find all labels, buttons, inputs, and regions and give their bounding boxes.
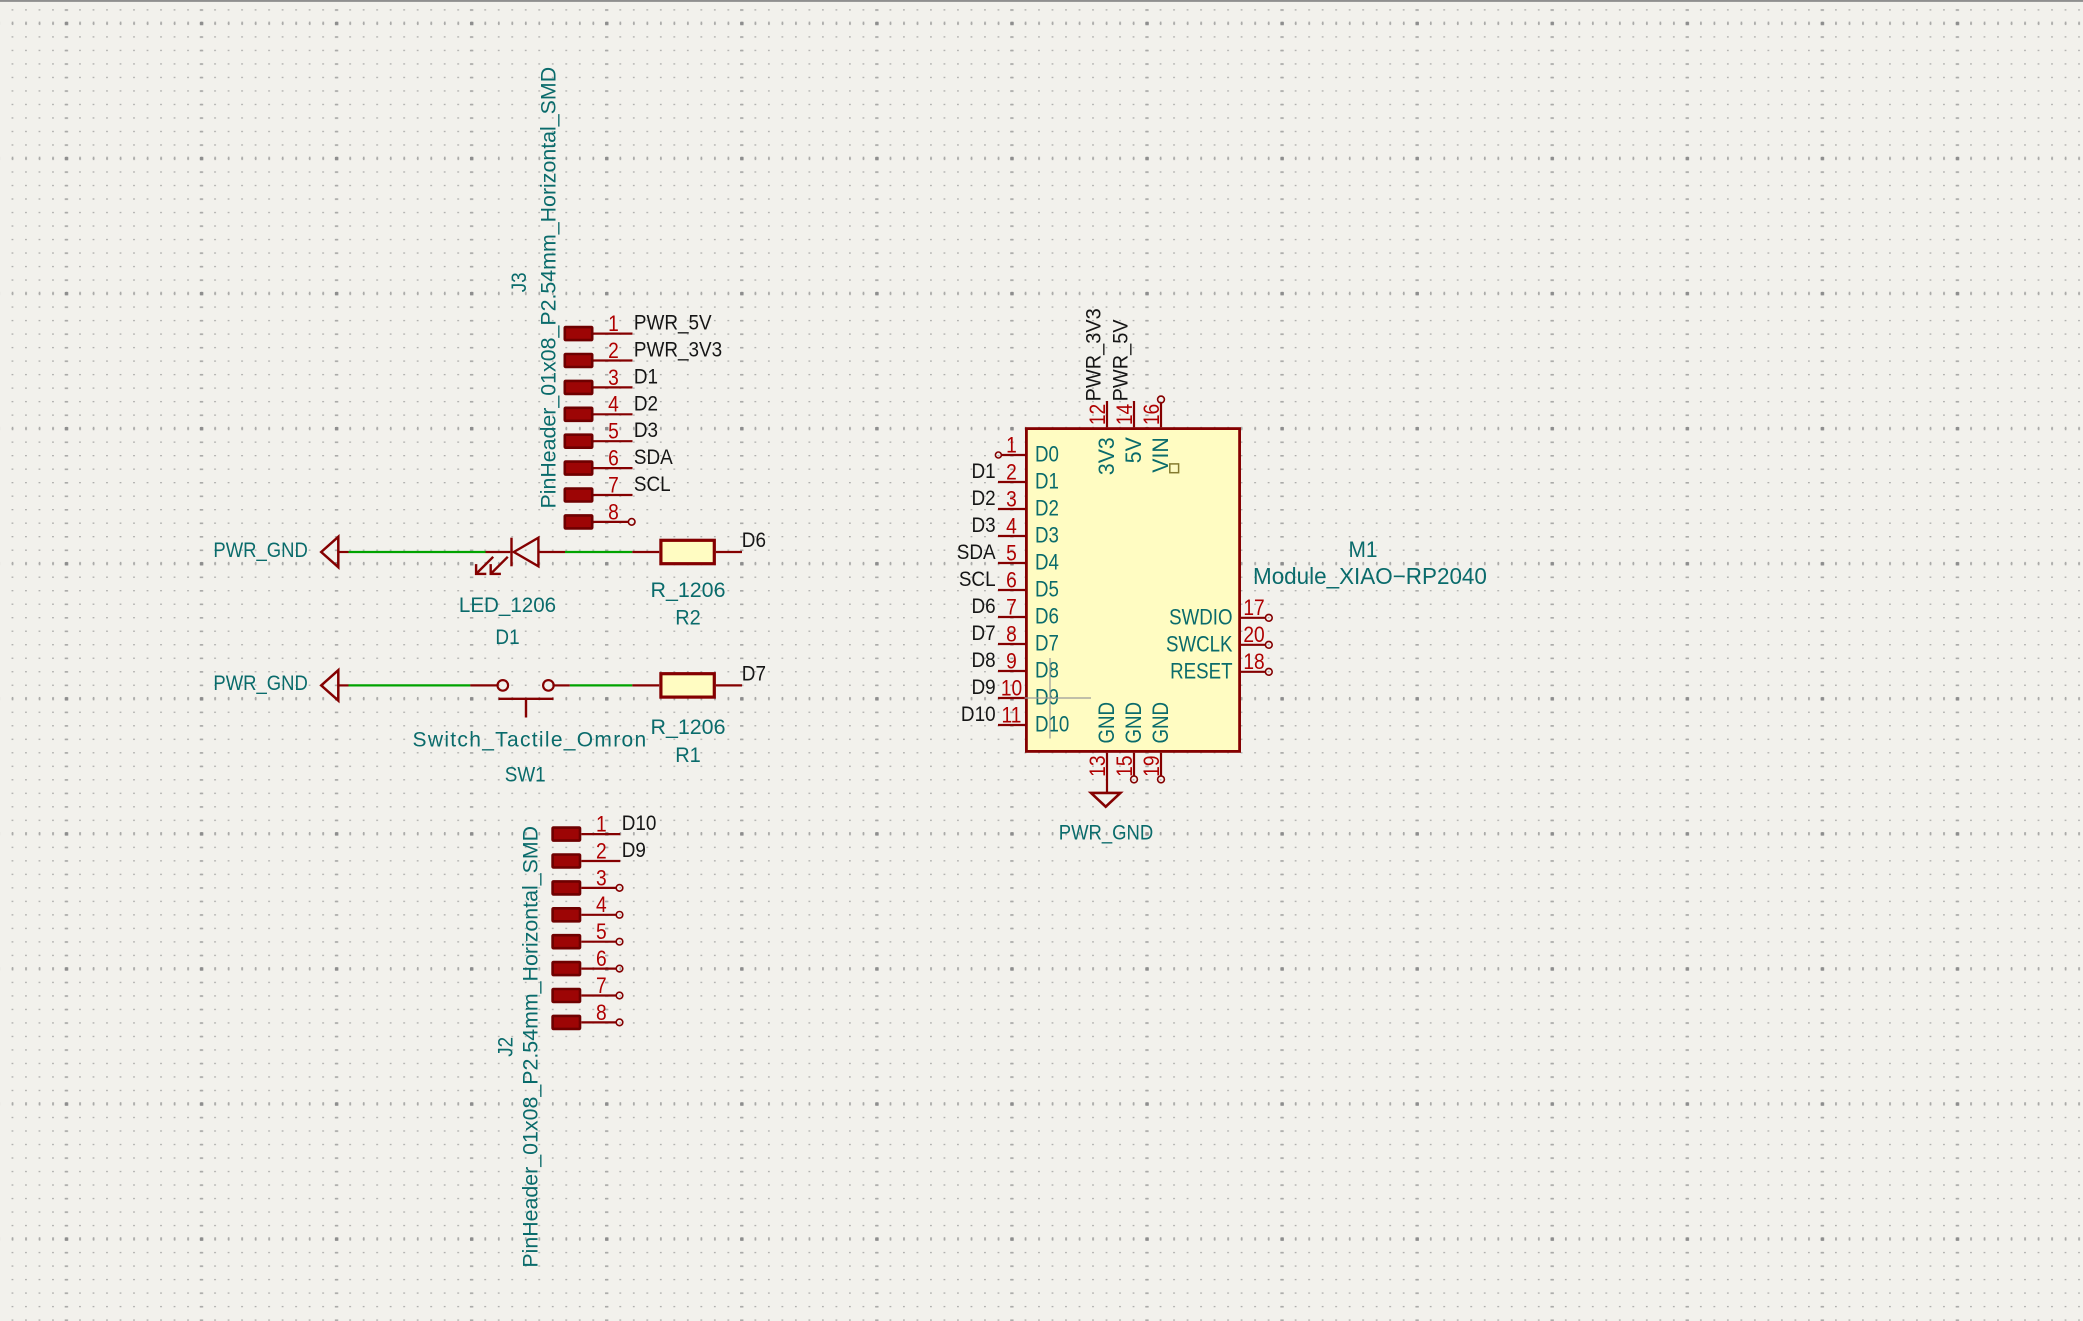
- svg-text:1: 1: [596, 812, 607, 836]
- svg-text:14: 14: [1113, 404, 1137, 425]
- svg-text:SDA: SDA: [634, 446, 673, 469]
- svg-text:PWR_GND: PWR_GND: [1059, 822, 1153, 845]
- svg-text:PWR_3V3: PWR_3V3: [1082, 308, 1106, 401]
- svg-text:R1: R1: [675, 743, 700, 767]
- svg-text:D7: D7: [742, 662, 766, 685]
- svg-text:D9: D9: [622, 839, 646, 862]
- svg-text:D1: D1: [495, 626, 519, 649]
- svg-text:PWR_3V3: PWR_3V3: [634, 339, 722, 362]
- svg-text:5: 5: [608, 419, 619, 443]
- svg-text:PWR_GND: PWR_GND: [213, 539, 307, 562]
- svg-text:D4: D4: [1035, 551, 1059, 575]
- svg-text:15: 15: [1113, 756, 1137, 777]
- svg-text:6: 6: [596, 947, 607, 971]
- svg-text:5: 5: [596, 920, 607, 944]
- svg-text:16: 16: [1140, 404, 1164, 425]
- svg-text:5V: 5V: [1121, 437, 1146, 464]
- svg-text:LED_1206: LED_1206: [459, 594, 556, 617]
- svg-text:20: 20: [1243, 623, 1264, 647]
- svg-text:D3: D3: [971, 514, 995, 537]
- svg-text:19: 19: [1140, 756, 1164, 777]
- svg-text:2: 2: [1006, 460, 1017, 484]
- svg-text:4: 4: [596, 893, 607, 917]
- svg-text:PinHeader_01x08_P2.54mm_Horizo: PinHeader_01x08_P2.54mm_Horizontal_SMD: [519, 826, 542, 1268]
- svg-text:D0: D0: [1035, 443, 1059, 467]
- svg-text:D3: D3: [634, 419, 658, 442]
- svg-text:SWDIO: SWDIO: [1169, 606, 1232, 630]
- svg-text:D10: D10: [961, 703, 996, 726]
- svg-text:11: 11: [1002, 703, 1022, 727]
- svg-text:5: 5: [1006, 541, 1017, 565]
- svg-text:GND: GND: [1123, 702, 1147, 744]
- svg-text:D7: D7: [971, 622, 995, 645]
- svg-text:J3: J3: [508, 272, 531, 292]
- svg-text:Module_XIAO−RP2040: Module_XIAO−RP2040: [1253, 564, 1487, 589]
- svg-text:1: 1: [1006, 433, 1017, 457]
- svg-text:PWR_GND: PWR_GND: [213, 672, 307, 695]
- svg-text:2: 2: [596, 839, 607, 863]
- svg-text:7: 7: [608, 473, 619, 497]
- svg-text:4: 4: [608, 393, 619, 417]
- svg-text:GND: GND: [1150, 702, 1174, 744]
- svg-text:8: 8: [1006, 622, 1017, 646]
- svg-text:3V3: 3V3: [1094, 437, 1119, 475]
- svg-text:8: 8: [608, 500, 619, 524]
- svg-text:SWCLK: SWCLK: [1166, 633, 1233, 657]
- svg-text:D6: D6: [742, 529, 766, 552]
- svg-text:9: 9: [1006, 649, 1017, 673]
- svg-text:6: 6: [1006, 568, 1017, 592]
- svg-text:Switch_Tactile_Omron: Switch_Tactile_Omron: [413, 728, 648, 751]
- svg-text:D1: D1: [634, 366, 658, 389]
- svg-text:D5: D5: [1035, 578, 1059, 602]
- svg-text:SCL: SCL: [959, 568, 996, 591]
- svg-text:SW1: SW1: [505, 764, 546, 787]
- svg-text:D3: D3: [1035, 524, 1059, 548]
- svg-text:D10: D10: [622, 812, 657, 835]
- svg-text:D1: D1: [971, 460, 995, 483]
- svg-text:D6: D6: [971, 595, 995, 618]
- svg-text:10: 10: [1001, 676, 1022, 700]
- svg-text:17: 17: [1243, 596, 1264, 620]
- svg-text:4: 4: [1006, 514, 1017, 538]
- svg-text:PWR_5V: PWR_5V: [1109, 319, 1133, 401]
- svg-text:J2: J2: [495, 1037, 518, 1057]
- svg-text:13: 13: [1086, 756, 1110, 777]
- svg-text:GND: GND: [1096, 702, 1120, 744]
- svg-text:R_1206: R_1206: [650, 579, 725, 602]
- svg-text:RESET: RESET: [1170, 660, 1232, 684]
- svg-text:6: 6: [608, 446, 619, 470]
- svg-text:7: 7: [1006, 595, 1017, 619]
- svg-text:SDA: SDA: [957, 541, 996, 564]
- svg-text:2: 2: [608, 339, 619, 363]
- svg-text:D8: D8: [971, 649, 995, 672]
- svg-text:PWR_5V: PWR_5V: [634, 312, 712, 335]
- svg-text:18: 18: [1243, 650, 1264, 674]
- svg-text:8: 8: [596, 1001, 607, 1025]
- svg-text:D10: D10: [1035, 713, 1069, 737]
- svg-text:3: 3: [608, 366, 619, 390]
- svg-text:R2: R2: [675, 606, 700, 630]
- svg-text:D1: D1: [1035, 470, 1059, 494]
- svg-text:7: 7: [596, 974, 607, 998]
- svg-text:3: 3: [596, 866, 607, 890]
- svg-text:D2: D2: [1035, 497, 1059, 521]
- svg-text:SCL: SCL: [634, 473, 671, 496]
- svg-text:1: 1: [608, 312, 619, 336]
- svg-text:M1: M1: [1348, 537, 1377, 562]
- svg-text:D2: D2: [634, 392, 658, 415]
- svg-text:PinHeader_01x08_P2.54mm_Horizo: PinHeader_01x08_P2.54mm_Horizontal_SMD: [538, 67, 561, 509]
- svg-text:D6: D6: [1035, 605, 1059, 629]
- svg-text:R_1206: R_1206: [650, 716, 725, 739]
- svg-text:D2: D2: [971, 487, 995, 510]
- svg-text:3: 3: [1006, 487, 1017, 511]
- svg-text:12: 12: [1086, 404, 1110, 425]
- svg-text:D9: D9: [971, 676, 995, 699]
- svg-text:D7: D7: [1035, 632, 1059, 656]
- svg-text:D8: D8: [1035, 659, 1059, 683]
